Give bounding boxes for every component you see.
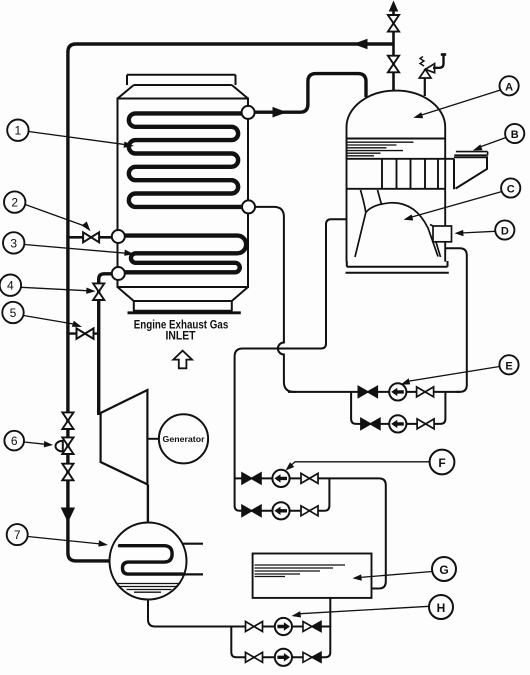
svg-text:5: 5 xyxy=(10,306,17,320)
valve V4 xyxy=(93,283,104,300)
wire: crossover with valve 5 xyxy=(68,332,99,334)
label circle 3 xyxy=(3,232,24,253)
label circle A xyxy=(500,76,519,95)
valve black E lower left xyxy=(361,418,380,429)
wire: superheater feed branch with valve 2 xyxy=(68,236,112,239)
valve black E upper left xyxy=(358,386,377,397)
tank G water hatching xyxy=(255,565,346,577)
boiler lower coil bank xyxy=(125,236,247,273)
valve open F lower right xyxy=(301,506,318,516)
wire: main steam line from drum vent tee left and down to condenser bypass xyxy=(68,44,394,561)
valve on vent lower xyxy=(388,56,399,73)
label circle 6 xyxy=(4,431,24,451)
condenser water hatching xyxy=(116,584,181,593)
label circle 4 xyxy=(0,275,21,296)
label circle H xyxy=(429,595,453,619)
wire: F pumps upper line to tank G suction xyxy=(235,478,386,588)
wire: H pumps lower loop xyxy=(231,598,330,657)
svg-text:Generator: Generator xyxy=(163,434,206,444)
label circle 1 xyxy=(7,120,28,141)
svg-text:G: G xyxy=(439,563,448,577)
svg-text:H: H xyxy=(437,601,446,615)
wire: drum vent line xyxy=(392,9,395,90)
arrow downward on bypass line xyxy=(61,508,75,523)
valve V5 xyxy=(77,328,94,338)
wire: evaporator feed from E pumps up to boiler node xyxy=(255,207,296,392)
svg-text:4: 4 xyxy=(7,279,14,293)
condenser circle xyxy=(110,523,187,600)
generator connector xyxy=(147,438,159,440)
svg-text:2: 2 xyxy=(11,196,18,210)
svg-text:E: E xyxy=(505,360,512,372)
pump H upper xyxy=(275,618,292,635)
drum water hatching xyxy=(347,142,414,156)
label circle E xyxy=(499,355,518,374)
valve open E upper right xyxy=(417,387,434,397)
label circle G xyxy=(432,557,456,581)
actuator half disc of V6 xyxy=(56,441,63,452)
steam drum vessel xyxy=(347,91,446,262)
svg-text:7: 7 xyxy=(14,528,21,542)
wire: E pumps lower loop xyxy=(351,392,445,424)
valve on bypass lower xyxy=(62,464,73,481)
svg-text:D: D xyxy=(501,226,509,238)
valve on bypass upper xyxy=(62,412,73,429)
svg-text:A: A xyxy=(505,81,513,93)
wire: F pumps lower loop xyxy=(243,478,329,510)
arrow on main steam line pointing left xyxy=(353,39,368,50)
check valve H upper right xyxy=(303,622,321,632)
pump E lower xyxy=(389,415,406,432)
boiler: exhaust gas heat exchanger body xyxy=(118,75,249,313)
wire: turbine exhaust to condenser xyxy=(147,484,149,523)
pump E upper xyxy=(389,383,406,400)
valve open F upper right xyxy=(301,473,318,483)
svg-text:C: C xyxy=(507,184,515,196)
arrow on boiler outlet pointing right xyxy=(273,107,288,118)
valve open E lower right xyxy=(417,419,434,429)
node: boiler left lower (superheater out) xyxy=(112,267,125,280)
check valve H lower right xyxy=(303,652,321,662)
svg-text:INLET: INLET xyxy=(166,328,196,342)
node: boiler left upper (superheater in) xyxy=(112,230,125,243)
svg-text:B: B xyxy=(511,129,519,141)
label circle 5 xyxy=(2,302,23,323)
condenser coil xyxy=(120,546,185,574)
generator xyxy=(159,414,208,463)
svg-text:1: 1 xyxy=(15,124,22,138)
safety valve on drum xyxy=(419,55,446,97)
label circle D xyxy=(495,220,514,239)
drum bottom plates xyxy=(346,261,449,273)
valve black F upper left xyxy=(242,473,261,484)
wire: superheater outlet down to turbine xyxy=(99,274,111,415)
svg-text:3: 3 xyxy=(10,236,17,250)
valve open H upper left xyxy=(246,622,263,632)
turbine xyxy=(101,390,148,484)
drum right fin and B box xyxy=(454,152,488,190)
node: boiler top right outlet xyxy=(242,106,255,119)
pump F upper xyxy=(272,470,289,487)
valve on vent upper xyxy=(388,15,399,32)
slant below D xyxy=(436,242,441,257)
wire: E pumps upper line xyxy=(288,391,460,393)
pump H lower xyxy=(275,649,292,666)
pump F lower xyxy=(272,502,289,519)
wire: drum feed line from F pumps to drum left inlet xyxy=(235,219,347,511)
tank G xyxy=(253,554,372,598)
arrow up on vent xyxy=(389,1,399,12)
label circle B xyxy=(505,124,524,143)
wire: condenser drain to H pumps upper line xyxy=(148,600,330,627)
boiler upper coil bank xyxy=(129,113,245,206)
valve open H lower left xyxy=(246,652,263,662)
drum lower internals: funnel and dome C xyxy=(355,190,438,257)
wire: drum downcomer to E pumps xyxy=(445,248,467,392)
label circle 2 xyxy=(4,191,25,212)
label circle F xyxy=(430,450,455,475)
block arrow up xyxy=(173,351,192,369)
valve V6 with actuator xyxy=(62,437,73,454)
label circle C xyxy=(501,178,520,197)
drum tube band xyxy=(347,159,455,189)
node: boiler mid right inlet xyxy=(242,200,255,213)
box D on drum side xyxy=(433,226,452,242)
valve V2 xyxy=(83,232,99,242)
valve black F lower left xyxy=(242,505,261,516)
label circle 7 xyxy=(7,524,28,545)
svg-text:6: 6 xyxy=(11,434,18,448)
svg-text:F: F xyxy=(438,456,445,470)
condenser cooling water stubs xyxy=(182,544,203,575)
wire: boiler steam outlet riser to drum xyxy=(254,74,366,113)
